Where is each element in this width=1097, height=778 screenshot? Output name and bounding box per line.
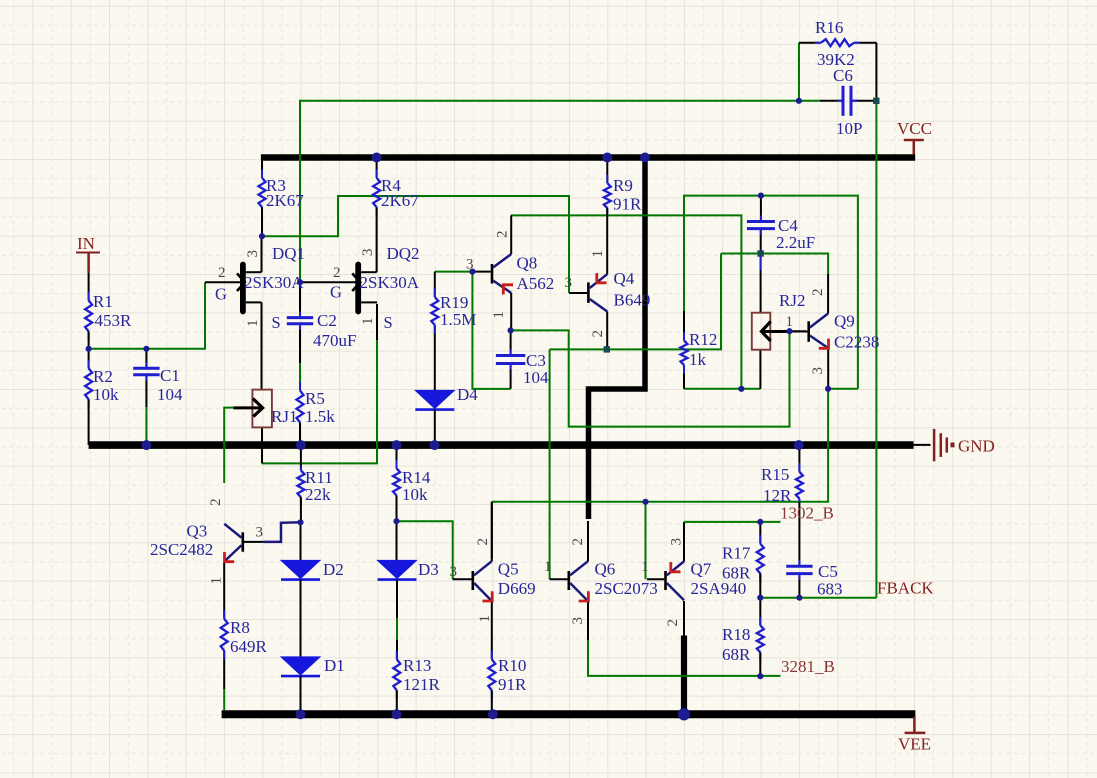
svg-text:DQ1: DQ1 <box>272 244 305 263</box>
junction dots on VEE bus <box>296 708 691 720</box>
wire: IN node horizontal y349 and DQ1 gate riser <box>89 282 205 349</box>
resistor R5 <box>297 382 336 445</box>
svg-text:3: 3 <box>450 564 458 580</box>
svg-text:121R: 121R <box>403 675 441 694</box>
junction square C4 bottom / RJ2 top <box>757 250 763 256</box>
wire: Q9 emitter node to riser x857.9 <box>828 388 858 390</box>
svg-text:2.2uF: 2.2uF <box>776 233 815 252</box>
svg-text:Q8: Q8 <box>517 254 538 273</box>
svg-text:1: 1 <box>590 250 606 258</box>
resistor R15 <box>761 445 803 505</box>
junction dot R17 top 1302_B <box>757 519 763 525</box>
wire: Q7 collector drop <box>683 601 685 636</box>
net label IN (port) <box>76 234 100 273</box>
svg-text:1: 1 <box>641 559 649 575</box>
svg-text:2SC2073: 2SC2073 <box>595 579 658 598</box>
wire: RJ2 bottom net y388.8 <box>684 350 760 389</box>
svg-text:A562: A562 <box>517 274 555 293</box>
junction dot C6 left <box>796 98 802 104</box>
svg-text:R8: R8 <box>230 618 250 637</box>
svg-text:104: 104 <box>523 368 549 387</box>
net label 3281_B <box>781 657 835 676</box>
wire: thick VCC drop bus with jog to Q6 collector <box>589 158 646 520</box>
wire: C4 pins <box>760 196 762 254</box>
transistor Q7 2SA940 (PNP) <box>641 538 746 627</box>
net label FBACK <box>877 579 934 598</box>
svg-text:C5: C5 <box>818 562 838 581</box>
wire: VCC bus <box>261 154 915 161</box>
junction square C6 right <box>873 98 879 104</box>
wire: Q5 collector riser and y501.8 run to corner x828 <box>492 389 828 559</box>
resistor R14 <box>393 445 431 521</box>
resistor R2 <box>85 349 119 445</box>
svg-text:R10: R10 <box>498 656 526 675</box>
potentiometer RJ1 <box>234 390 298 428</box>
capacitor C4 2.2uF <box>747 216 815 253</box>
svg-text:3: 3 <box>565 275 573 291</box>
wire: C3 pins <box>510 330 512 389</box>
wire: RJ2 top pin <box>760 254 762 313</box>
potentiometer RJ2 <box>752 291 806 350</box>
svg-text:R5: R5 <box>305 389 325 408</box>
resistor R11 <box>297 445 332 522</box>
svg-text:D4: D4 <box>457 385 478 404</box>
power symbol VEE <box>898 717 931 754</box>
wire: Q7 emitter riser and 1302_B run <box>684 522 780 562</box>
svg-text:VEE: VEE <box>898 735 931 754</box>
junction dot RJ2 bottom net <box>738 386 744 392</box>
wire: R3 bottom to DQ2-gate feed, y196 run over to Q4 base <box>262 196 569 293</box>
svg-text:1302_B: 1302_B <box>780 504 834 523</box>
svg-text:3: 3 <box>360 249 376 257</box>
svg-text:12R: 12R <box>763 486 792 505</box>
svg-text:2SC2482: 2SC2482 <box>150 540 213 559</box>
wire: DQ2 source black segment <box>376 304 378 340</box>
svg-text:1k: 1k <box>689 350 707 369</box>
svg-text:2: 2 <box>590 330 606 338</box>
wire: RJ1 wiper feed and drop to Q3 collector <box>224 408 238 483</box>
wire: C1 pins <box>145 349 147 445</box>
svg-text:22k: 22k <box>305 485 331 504</box>
wire: Q7 base riser from y501.8 <box>645 502 647 579</box>
junction dot Q8 emitter/C3 <box>508 327 514 333</box>
svg-text:R18: R18 <box>722 625 750 644</box>
svg-text:1: 1 <box>544 559 552 575</box>
svg-text:D1: D1 <box>324 656 345 675</box>
svg-text:91R: 91R <box>498 675 527 694</box>
wire: C2 pins on node x300 <box>299 282 301 363</box>
wire: thick Q7 collector drop to VEE bus <box>681 636 687 715</box>
svg-text:2: 2 <box>333 265 341 281</box>
svg-text:R9: R9 <box>613 176 633 195</box>
wire: RJ2 wiper to Q9 base <box>766 330 806 332</box>
svg-text:D669: D669 <box>498 579 536 598</box>
resistor R13 <box>393 651 440 714</box>
wire: C6 horizontal pins <box>799 100 876 102</box>
svg-text:GND: GND <box>958 437 995 456</box>
resistor R18 <box>722 598 764 677</box>
diode D2 <box>281 522 344 657</box>
svg-text:1: 1 <box>209 577 225 585</box>
transistor Q3 2SC2482 (NPN, mirrored) <box>150 498 264 584</box>
svg-text:2SK30A: 2SK30A <box>360 273 420 292</box>
svg-text:Q7: Q7 <box>691 560 712 579</box>
svg-text:683: 683 <box>817 580 843 599</box>
svg-text:FBACK: FBACK <box>877 579 934 598</box>
wire: y349 run Q4 collector to C4 bottom riser x721 <box>550 254 721 350</box>
svg-text:2: 2 <box>475 538 491 546</box>
svg-text:G: G <box>330 283 342 302</box>
svg-text:Q4: Q4 <box>614 269 635 288</box>
wire: FBACK run y597.7 <box>760 597 876 599</box>
capacitor C2 470uF <box>287 311 357 350</box>
resistor R17 <box>722 522 764 598</box>
svg-text:C2: C2 <box>317 311 337 330</box>
junction dot C4 top <box>758 193 764 199</box>
transistor Q6 2SC2073 (NPN) <box>544 521 658 625</box>
svg-text:3: 3 <box>810 367 826 375</box>
JFET DQ1 2SK30A <box>205 236 305 389</box>
junction dot Q9 base <box>786 328 792 334</box>
wire: Q3 base L to node x300 <box>264 522 300 542</box>
svg-text:1.5M: 1.5M <box>440 310 476 329</box>
capacitor C5 683 <box>786 560 842 598</box>
junction dot IN node <box>86 346 150 352</box>
resistor R19 <box>431 272 476 334</box>
svg-text:RJ1: RJ1 <box>271 407 297 426</box>
svg-text:R2: R2 <box>93 367 113 386</box>
junction dot R14 bottom <box>393 518 399 524</box>
svg-text:Q3: Q3 <box>187 522 208 541</box>
wire: long right vertical net C6-right down to FBACK corner <box>875 101 877 598</box>
wire: R14 bottom node to Q5 base <box>397 521 453 579</box>
svg-text:S: S <box>384 313 393 332</box>
svg-text:68R: 68R <box>722 564 751 583</box>
diode D1 <box>281 656 345 714</box>
junction dot Q9 emitter <box>825 386 831 392</box>
wire: VEE bus <box>222 710 916 718</box>
junction dots on GND bus <box>141 440 803 450</box>
svg-text:DQ2: DQ2 <box>387 244 420 263</box>
svg-text:VCC: VCC <box>897 119 932 138</box>
wire: node x300 vertical C2/R5 segment <box>299 363 301 391</box>
svg-text:453R: 453R <box>95 311 133 330</box>
svg-text:C6: C6 <box>833 66 853 85</box>
capacitor C3 104 <box>496 350 549 388</box>
svg-text:2: 2 <box>218 265 226 281</box>
svg-text:91R: 91R <box>613 195 642 214</box>
net label 1302_B <box>780 504 834 523</box>
svg-text:2: 2 <box>810 289 826 297</box>
resistor R4 <box>373 158 419 273</box>
capacitor C1 <box>133 362 183 404</box>
wire: y195.6 run R12 top / C4 top / bootstrap riser x857.9 <box>684 196 858 389</box>
junction dot R18 bottom 3281_B <box>757 673 763 679</box>
junction dot Q8 base <box>469 269 475 275</box>
svg-text:D3: D3 <box>418 560 439 579</box>
resistor R1 <box>85 273 132 349</box>
svg-text:R12: R12 <box>689 330 717 349</box>
svg-text:1: 1 <box>477 615 493 623</box>
wire: R16 left pin drop (green) <box>798 43 800 101</box>
wire: Q9 base drop and y426.6 run to Q8 emitter loop <box>511 330 790 426</box>
wire: Q8 base / R19 / C3 loop <box>435 272 511 389</box>
svg-text:1: 1 <box>491 311 507 319</box>
svg-text:2: 2 <box>665 619 681 627</box>
svg-text:470uF: 470uF <box>313 331 356 350</box>
resistor R8 <box>221 610 268 659</box>
svg-text:2: 2 <box>570 538 586 546</box>
wire: RJ1 bottom across to DQ2 source <box>262 340 377 463</box>
svg-text:C2238: C2238 <box>834 333 879 352</box>
svg-text:R17: R17 <box>722 544 751 563</box>
junction square Q4 collector <box>604 346 610 352</box>
capacitor C6 10P (horizontal) <box>833 66 862 138</box>
svg-text:10k: 10k <box>402 485 428 504</box>
power symbol GND <box>934 429 995 461</box>
wire: C5 pins <box>798 502 800 598</box>
svg-text:Q5: Q5 <box>498 560 519 579</box>
svg-text:2K67: 2K67 <box>266 191 304 210</box>
svg-text:104: 104 <box>157 385 183 404</box>
svg-text:3281_B: 3281_B <box>781 657 835 676</box>
svg-text:R16: R16 <box>815 18 843 37</box>
wire: top feedback net from node x300 to C6 left <box>300 101 799 283</box>
svg-text:1: 1 <box>786 314 794 330</box>
svg-text:3: 3 <box>245 250 261 258</box>
svg-text:RJ2: RJ2 <box>779 291 805 310</box>
junction dot C5 bottom <box>796 595 802 601</box>
transistor Q8 A562 (PNP) <box>466 215 554 330</box>
junction dot node x300 gate2 <box>297 279 303 285</box>
resistor R12 <box>681 311 718 374</box>
junction dot R11 bottom <box>297 519 303 525</box>
svg-text:2: 2 <box>494 231 510 239</box>
wire: R16 pins <box>799 43 876 101</box>
transistor Q5 D669 (NPN) <box>450 502 536 623</box>
JFET DQ2 2SK30A <box>302 244 420 332</box>
junction dot R3/DQ1 drain <box>259 233 265 239</box>
svg-text:3: 3 <box>256 525 264 541</box>
resistor R9 <box>604 158 642 214</box>
svg-text:Q6: Q6 <box>595 560 616 579</box>
svg-text:R15: R15 <box>761 465 789 484</box>
diode D3 <box>378 521 439 659</box>
wire: Q3 emitter drop to R8 <box>223 562 225 710</box>
transistor Q9 C2238 (NPN) <box>786 274 880 389</box>
wire: Q8 collector run y215 down x741 to RJ2 bottom net <box>511 215 741 388</box>
svg-text:649R: 649R <box>230 637 268 656</box>
svg-text:1: 1 <box>360 318 376 326</box>
svg-text:1: 1 <box>245 320 261 328</box>
svg-text:C1: C1 <box>160 366 180 385</box>
svg-text:R13: R13 <box>403 656 431 675</box>
junction dot Q7 base y501.8 <box>642 499 648 505</box>
svg-text:2SK30A: 2SK30A <box>244 273 304 292</box>
svg-text:R1: R1 <box>93 292 113 311</box>
diode D4 <box>415 325 478 445</box>
wire: GND bus <box>89 441 931 449</box>
svg-text:S: S <box>272 313 281 332</box>
power symbol VCC <box>897 119 932 155</box>
svg-text:10P: 10P <box>836 119 862 138</box>
resistor R16 39K2 (horizontal) <box>815 18 860 69</box>
wire: y253.5 run C4 bottom to Q9 collector <box>721 254 828 275</box>
svg-text:3: 3 <box>669 538 685 546</box>
wire: Q6 base riser from y349 <box>549 349 551 579</box>
svg-text:D2: D2 <box>323 560 344 579</box>
transistor Q4 B649 (PNP) <box>565 208 651 350</box>
svg-text:68R: 68R <box>722 645 751 664</box>
svg-text:10k: 10k <box>93 385 119 404</box>
svg-text:G: G <box>215 285 227 304</box>
svg-text:3: 3 <box>570 617 586 625</box>
svg-text:2K67: 2K67 <box>381 191 419 210</box>
svg-text:2: 2 <box>208 498 224 506</box>
svg-text:1.5k: 1.5k <box>305 407 335 426</box>
resistor R10 <box>488 651 527 714</box>
svg-text:B649: B649 <box>614 291 651 310</box>
svg-text:IN: IN <box>77 234 95 253</box>
svg-text:Q9: Q9 <box>834 312 855 331</box>
junction dots on VCC bus <box>372 153 650 163</box>
resistor R3 <box>259 158 305 237</box>
junction dot R17/R18 FBACK <box>757 595 763 601</box>
wire: Q5 emitter drop to R10 <box>491 601 493 659</box>
wire: Q6 emitter drop to 3281_B run <box>588 601 780 676</box>
